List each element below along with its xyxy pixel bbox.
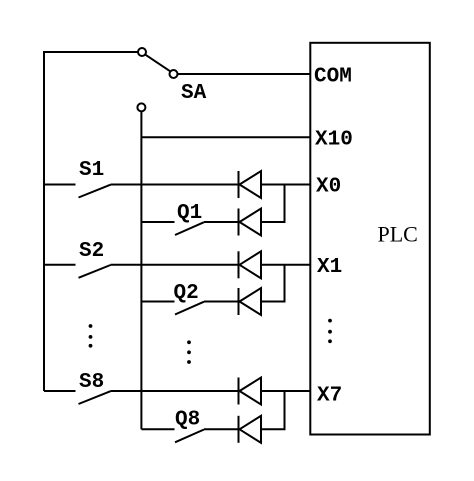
svg-text:S2: S2: [79, 240, 104, 263]
svg-text:COM: COM: [314, 66, 352, 89]
wire top horizontal to SA: [43, 51, 138, 53]
svg-text:X1: X1: [317, 256, 342, 279]
switch Q1: [141, 222, 204, 235]
diode D3 (X1 row): [239, 251, 262, 278]
svg-text:Q2: Q2: [174, 282, 199, 305]
wire S2 to diode D3: [111, 264, 239, 266]
switch S1: [44, 185, 111, 198]
wire Q8 to diode D6: [204, 428, 239, 430]
wire COM from SA to PLC: [178, 73, 311, 75]
node X10 contact circle of SA: [137, 103, 145, 111]
svg-text:X0: X0: [316, 176, 341, 199]
svg-text:SA: SA: [181, 82, 207, 105]
wire S1 to diode D1: [111, 184, 239, 186]
node ellipsis S column: [89, 324, 93, 348]
wire D3 to PLC X1: [261, 264, 311, 266]
svg-text:S1: S1: [79, 159, 104, 182]
switch S8: [44, 391, 111, 404]
diode D6 (Q8 row): [239, 416, 262, 443]
svg-text:X10: X10: [315, 129, 353, 152]
wire D4 to junction: [261, 301, 286, 303]
wire left bus vertical: [43, 52, 45, 391]
svg-text:Q8: Q8: [175, 409, 200, 432]
svg-text:Q1: Q1: [177, 202, 202, 225]
switch Q8: [141, 429, 204, 442]
wire S8 to diode D5: [111, 390, 239, 392]
switch SA selector: [138, 48, 178, 78]
node ellipsis Q column: [187, 340, 191, 364]
wire X10 horizontal to PLC: [141, 136, 310, 138]
op box PLC U1: [310, 43, 430, 435]
diode D5 (X7 row): [239, 378, 262, 405]
wire D2 to junction: [261, 221, 286, 223]
wire Q2 to diode D4: [204, 301, 239, 303]
svg-text:X7: X7: [317, 385, 342, 408]
switch Q2: [141, 302, 204, 315]
wire D5 to PLC X7: [261, 390, 311, 392]
wire junction X7 vertical: [284, 391, 286, 429]
switch S2: [44, 265, 111, 278]
svg-text:S8: S8: [79, 371, 104, 394]
diode D4 (Q2 row): [239, 288, 262, 315]
diode D1 (X0 row): [239, 171, 262, 198]
wire Q column bus vertical: [140, 111, 142, 429]
node ellipsis PLC inputs: [328, 319, 332, 343]
wire D1 to PLC X0: [261, 184, 311, 186]
wire Q1 to diode D2: [204, 221, 239, 223]
diode D2 (Q1 row): [239, 209, 262, 236]
svg-text:PLC: PLC: [378, 222, 418, 247]
wire D6 to junction: [261, 428, 286, 430]
wire junction X0 vertical: [284, 185, 286, 223]
wire junction X1 vertical: [284, 265, 286, 302]
